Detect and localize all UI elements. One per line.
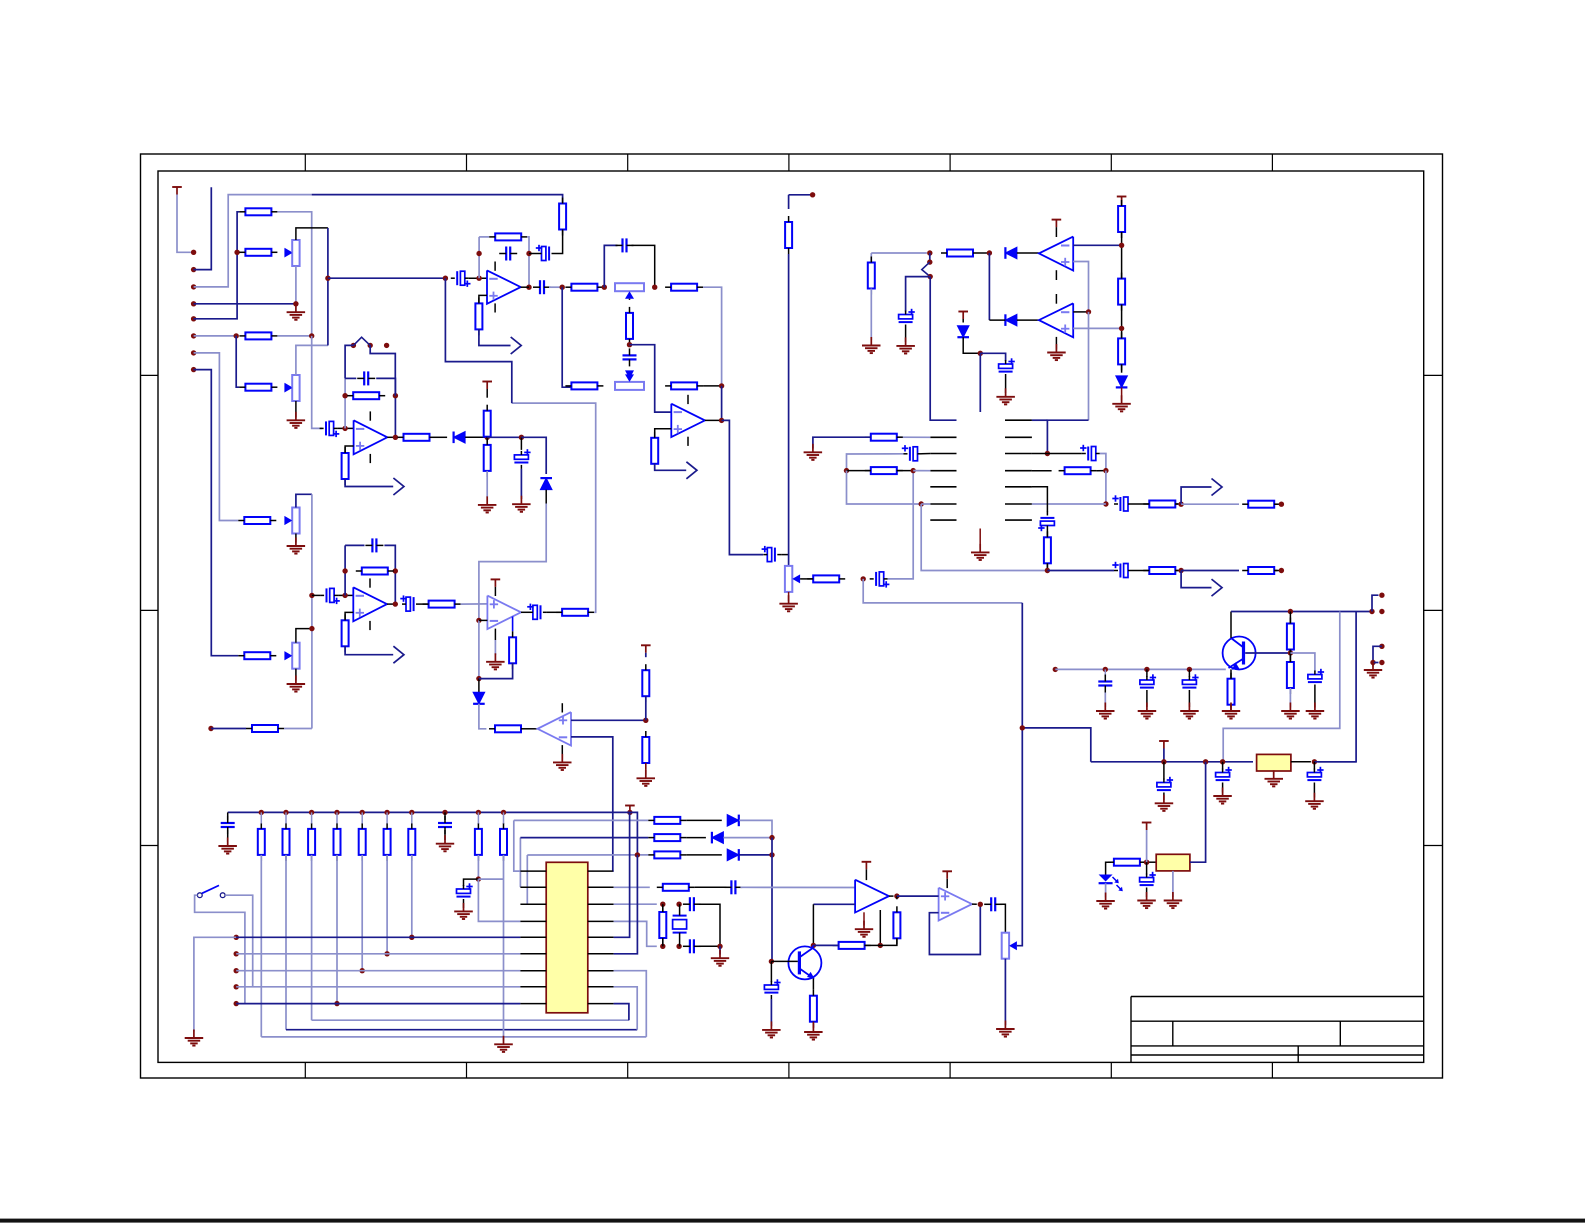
wire C27 to R40 [1132, 503, 1149, 505]
wire R47 top lead [1289, 653, 1291, 662]
module left pins [930, 437, 956, 520]
U6 power stubs [369, 578, 371, 587]
ground G24 [1213, 788, 1232, 804]
U2 power stubs [687, 395, 689, 404]
junction C10 left [476, 251, 481, 256]
U1 power stubs [494, 262, 496, 271]
junction U6 out [393, 601, 398, 606]
wire top rail to R1 [312, 195, 563, 204]
wire conn2 link [1373, 646, 1382, 662]
wire R20 to ground [486, 471, 488, 497]
junction out1 [1178, 502, 1183, 507]
diode D7 [1005, 247, 1017, 259]
wire mod row2 feed [897, 436, 931, 438]
wire R21 to U5 [527, 728, 538, 730]
resistor R17 [342, 447, 349, 485]
resistor R22 [642, 664, 649, 702]
capacitor C42 [683, 897, 701, 911]
resistor R13 [651, 432, 658, 470]
wire row2 riser [519, 838, 521, 888]
capacitor C20 [365, 538, 383, 552]
jumper link J1 [353, 337, 370, 345]
wire SW1 left [195, 895, 245, 1003]
junction bank9 [501, 810, 506, 815]
wire C1 left [529, 253, 538, 255]
wire rpin6 net [614, 855, 638, 954]
wire bus down [771, 838, 773, 855]
wire divider a [1121, 232, 1123, 279]
junction R3 left [234, 250, 239, 255]
junction sense C [928, 274, 933, 279]
wire LED bottom [1105, 883, 1107, 897]
node pad8 [191, 367, 196, 372]
resistor R51 [308, 823, 315, 861]
power VCC P11 [862, 862, 872, 870]
capacitor C13 [623, 348, 637, 366]
wire rpin8 net [614, 987, 638, 1030]
capacitor C23 [899, 309, 915, 329]
potentiometer RP6 [615, 374, 644, 390]
wire bank pin stub [386, 812, 388, 823]
wire C22 to R27 [547, 611, 562, 613]
resistor R9 [665, 284, 703, 291]
wire row4r to R39 [1032, 470, 1052, 472]
ground G12 [1112, 395, 1131, 411]
port arrow A6 [1212, 579, 1223, 596]
capacitor C19 [320, 588, 340, 604]
wire P3 to R22 [645, 653, 647, 657]
wire row1 right [703, 287, 722, 386]
wire fb3 cap left [345, 544, 364, 546]
wire R29 to D4 [686, 819, 722, 821]
resistor R57 [500, 823, 507, 861]
node pad5 [191, 316, 196, 321]
power VCC P3 [641, 645, 651, 653]
wire U5 minus in [571, 737, 613, 871]
resistor R27 [556, 609, 594, 616]
wire C1 right [556, 230, 563, 254]
wire bank2 drop [285, 855, 287, 1030]
crystal Y1 [673, 904, 687, 946]
wire R48 to reg2 [1143, 861, 1156, 863]
ground G16 [1096, 703, 1115, 719]
wire U8 minus drop [1088, 312, 1090, 420]
ground G36 [855, 921, 873, 937]
ground G3 [779, 595, 798, 611]
ground G5 [512, 496, 531, 512]
U4 minus label [490, 620, 498, 622]
junction fb3 left [342, 568, 347, 573]
wire bank pin stub [361, 812, 363, 823]
junction bank6 [384, 810, 389, 815]
junction reg1 in a [1161, 759, 1166, 764]
wire RP4 top [296, 629, 312, 643]
junction bank7 [409, 810, 414, 815]
U4 plus label [490, 603, 498, 605]
diode D10 [957, 326, 969, 337]
wire sense down [930, 277, 956, 421]
wire C39 gnd [444, 830, 446, 840]
U3 power stubs [369, 411, 371, 420]
node busD pad [234, 984, 239, 989]
wire bank8 drop [477, 855, 479, 879]
resistor R61 [833, 942, 871, 949]
wire D6 to bus [739, 854, 772, 856]
resistor R21 [489, 725, 527, 732]
wire U8 gnd stem [1055, 348, 1057, 350]
capacitor C15 [870, 572, 890, 588]
wire rail drop navy [1318, 612, 1356, 762]
wire C37 lead [1146, 862, 1148, 874]
wire conn2 gnd [1372, 663, 1374, 667]
wire out2 arrow leg [1181, 571, 1211, 588]
resistor R36 [1118, 332, 1125, 370]
wire C23 to ground [905, 329, 907, 343]
wire bank pin stub [260, 812, 262, 823]
junction C30 top [1103, 667, 1108, 672]
junction out1 row [1103, 501, 1108, 506]
wire C23 branch [906, 277, 931, 312]
ground G32 [494, 1036, 513, 1052]
wire pad2 stub [194, 187, 212, 269]
node T1B [652, 285, 657, 290]
border zone tick marks [141, 154, 1443, 1078]
resistor R37 [865, 434, 903, 441]
capacitor C17 [357, 371, 375, 385]
resistor R2 [239, 208, 277, 215]
node rail top pad [810, 192, 815, 197]
wire RP8 wiper [1017, 603, 1022, 946]
wire R44 leads [1274, 570, 1277, 572]
capacitor C28 [1038, 512, 1054, 532]
wire R42 to row [1046, 563, 1048, 570]
junction U2 out [719, 418, 724, 423]
resistor R47 [1287, 656, 1294, 694]
wire C12 to T1B [632, 245, 655, 287]
potentiometer RP5 [615, 283, 644, 299]
resistor R12 [665, 382, 703, 389]
wire row6r to node [1032, 503, 1106, 505]
junction xtal bot b [676, 944, 681, 949]
node conn pin2 [1379, 609, 1384, 614]
resistor R5 [239, 384, 277, 391]
capacitor C22 [527, 604, 547, 620]
ground G18 [1180, 703, 1199, 719]
wire rpin9 net [614, 1004, 629, 1021]
wire R38 left lead [847, 470, 871, 472]
wire P8 stem [962, 319, 964, 323]
wire D4 to bus [739, 820, 772, 837]
wire rail drop light [1223, 612, 1340, 762]
capacitor C21 [400, 595, 420, 611]
node pad1 [191, 250, 196, 255]
wire fb2 cap right [376, 378, 395, 437]
junction U1 out [526, 285, 531, 290]
wire R37 gnd leg [813, 437, 871, 448]
resistor R7 [475, 297, 482, 335]
wire RP2 top [296, 345, 328, 375]
wire bank1 drop [260, 855, 262, 1037]
op-amp U5 [538, 712, 572, 745]
wire U4 out [521, 611, 529, 613]
wire C11 out [549, 286, 562, 288]
junction RP1 ground [293, 301, 298, 306]
wire T1D to out [721, 386, 723, 421]
wire R39 to node [1097, 470, 1106, 472]
wire bank pin stub [411, 812, 413, 823]
ground G37 [804, 1024, 823, 1040]
ground G26 [1305, 793, 1324, 809]
U10 minus label [941, 912, 949, 914]
capacitor C45 [984, 897, 1002, 911]
resistor R56 [475, 823, 482, 861]
wire C25 left leg [847, 454, 904, 471]
wire U1 out [521, 286, 529, 288]
wire C34 gnd [1163, 797, 1165, 801]
wire pad4 to ground node [194, 303, 296, 305]
ground G8 [486, 653, 505, 669]
wire mid riser [327, 228, 329, 346]
wire input riser [311, 494, 313, 728]
resistor R3 [239, 249, 277, 256]
junction xtal bot a [660, 944, 665, 949]
wire conn1 up [1372, 595, 1379, 611]
U5 minus label [559, 736, 567, 738]
wire C21 to R26 [420, 603, 429, 605]
resistor R25 [342, 614, 349, 652]
junction U4 minus [476, 618, 481, 623]
wire bank9 drop [503, 855, 505, 1041]
wire C45 to pot [1000, 904, 1005, 932]
resistor R34 [1118, 200, 1125, 238]
capacitor C38 [221, 816, 235, 834]
diode D6 [727, 849, 739, 861]
power VCC P10 [1142, 823, 1152, 831]
junction U8 minus [1086, 309, 1091, 314]
wiper arrow RP4 [285, 651, 293, 660]
wire R2 rail up [237, 212, 239, 253]
wire R7 to port [479, 329, 511, 345]
wire Q2 emitter lead [812, 979, 814, 990]
junction conn2 [1370, 660, 1375, 665]
switch SW1 [197, 885, 225, 897]
wire U9 lower in [813, 903, 855, 905]
resistor R46 [1287, 618, 1294, 656]
resistor R48 [1108, 859, 1146, 866]
junction C32 top [1187, 667, 1192, 672]
wire U8 minus in [1073, 311, 1088, 313]
wire busD [236, 986, 520, 988]
junction filter tap [861, 576, 866, 581]
transistor Q2 [788, 946, 821, 979]
U9 power stubs [865, 869, 867, 880]
wire row6 to mod [921, 503, 930, 505]
resistor R64 [238, 652, 276, 659]
junction xtal top a [660, 902, 665, 907]
junction vout rail [1020, 725, 1025, 730]
wire Q2 collector lead [812, 945, 814, 948]
ground G35 [711, 950, 729, 966]
wire row7 left [211, 728, 246, 730]
wire rail lower [788, 254, 790, 566]
wire rpin5 net [614, 812, 630, 937]
power VCC P9 [1159, 741, 1169, 749]
wire R41 leads [1274, 503, 1277, 505]
wire U4 riser low [478, 620, 480, 678]
junction fb2 left [342, 393, 347, 398]
wire R47 gnd [1289, 688, 1291, 708]
resistor R43 [1143, 567, 1181, 574]
wire bank3 drop [311, 855, 313, 1020]
wire U1 plus [479, 295, 487, 303]
ground G41 [287, 676, 306, 692]
resistor R60 [893, 906, 900, 944]
wire window link [988, 253, 990, 320]
wire bank pin stub [285, 812, 287, 823]
wiper arrow RP1 [285, 248, 293, 257]
junction fb mid [878, 943, 883, 948]
port arrow A1 [511, 337, 522, 354]
wire R40 to dot [1175, 503, 1178, 505]
wire pad8 stub [194, 370, 239, 656]
junction C19 tap [309, 593, 314, 598]
op-amp U4 [487, 596, 521, 629]
capacitor C43 [683, 939, 701, 953]
junction busB tap [384, 951, 389, 956]
U8 plus label [1061, 328, 1069, 330]
ground G6 [553, 754, 572, 770]
resistor R6 [489, 233, 527, 240]
junction U10 out [978, 902, 983, 907]
ground G4 [478, 496, 497, 512]
wire C29 to R43 [1132, 570, 1149, 572]
wire aux rail down [979, 353, 981, 412]
wire loop to C9 node [445, 278, 511, 403]
wire jumper left leg [345, 345, 353, 378]
junction jumper right [368, 343, 373, 348]
wire xtal bot right [699, 945, 720, 947]
wire D5 to bus [723, 837, 772, 839]
wire VR2 out [1190, 762, 1206, 862]
screenshot bottom bar [0, 1219, 1585, 1223]
U7 minus label [1061, 245, 1069, 247]
op-amp U8 [1039, 303, 1073, 337]
wire pad6 stub [194, 335, 237, 337]
wire row5r link [1032, 487, 1048, 512]
capacitor C33 [1308, 669, 1324, 689]
wire C9 to U1 [469, 277, 487, 279]
wire C14 to rail [781, 554, 788, 556]
capacitor C32 [1182, 674, 1198, 694]
ground G19 [1222, 703, 1240, 719]
wire C36 lead [1313, 762, 1315, 770]
node X1 [560, 285, 565, 290]
diode D2 [540, 478, 552, 490]
junction divider 2 [1119, 326, 1124, 331]
wire rpin4 net [614, 921, 657, 946]
wire C18 to ground [520, 469, 522, 499]
resistor R55 [408, 823, 415, 861]
node busC pad [234, 968, 239, 973]
resistor R11 [565, 382, 603, 389]
junction jumper left [351, 343, 356, 348]
wire out2 ext [1181, 570, 1239, 572]
ground G10 [896, 337, 915, 353]
wire R26 to U4 [461, 603, 488, 605]
capacitor C36 [1307, 767, 1323, 787]
wire X1 down [562, 287, 571, 387]
wire C31 gnd lead [1146, 694, 1148, 707]
wire R28 to node [479, 663, 513, 678]
resistor R1 [559, 198, 566, 236]
U10 power stubs [946, 879, 948, 888]
capacitor C24 [999, 358, 1015, 378]
junction U3 out [393, 435, 398, 440]
resistor R63 [238, 517, 276, 524]
wire bus1 [261, 1036, 646, 1038]
diode D9 [1116, 376, 1128, 388]
wire out2 row [1047, 570, 1114, 572]
junction bus2 [769, 852, 774, 857]
port arrow A2 [686, 462, 697, 479]
capacitor C41 [724, 880, 742, 894]
wire RP3 top [296, 494, 312, 507]
wire decouple row [478, 878, 503, 880]
wire D8 to U8 [1017, 319, 1039, 321]
wire busA gnd leg [194, 937, 236, 1031]
regulator VR1 [1257, 754, 1291, 771]
wire RP2 bottom [295, 401, 297, 418]
junction bank4 [334, 810, 339, 815]
junction C10 right [526, 251, 531, 256]
wire row1r drop [1047, 420, 1088, 453]
wire bank6 drop [386, 855, 388, 954]
junction bank5 [360, 810, 365, 815]
wire sense drop [870, 253, 872, 263]
resistor R40 [1143, 501, 1181, 508]
wire C26 left [1047, 453, 1081, 455]
wire U9 lower drop [812, 904, 814, 945]
junction bank3 [309, 810, 314, 815]
wire bank7 drop [411, 855, 413, 937]
wire peak node link [487, 436, 521, 438]
wire rpin3 net [614, 903, 657, 905]
capacitor C10 [499, 247, 517, 261]
op-amp U3 [354, 420, 388, 454]
wire vout riser [1022, 728, 1091, 762]
wire U9 out [889, 895, 894, 897]
resistor R4 [239, 332, 277, 339]
capacitor C14 [762, 546, 782, 562]
wire Q2 base lead [771, 960, 797, 962]
wire R13 to port [655, 464, 687, 471]
ground G30 [218, 838, 237, 854]
op-amp U6 [353, 587, 387, 621]
wire U4 gnd stem [494, 640, 496, 655]
junction U1 minus [476, 276, 481, 281]
wire D9 to ground [1121, 388, 1123, 401]
wire R59 bot lead [662, 938, 664, 946]
wire R46 top lead [1289, 612, 1291, 624]
resistor R8 [565, 284, 603, 291]
node out1 pad [1279, 502, 1284, 507]
wire C41 to U9 [740, 886, 855, 888]
resistor R20 [484, 439, 491, 477]
junction fb2 right [393, 393, 398, 398]
wire base branch [1290, 653, 1315, 672]
wire fb3 cap right [384, 545, 395, 604]
wire U1 minus riser [478, 237, 480, 278]
